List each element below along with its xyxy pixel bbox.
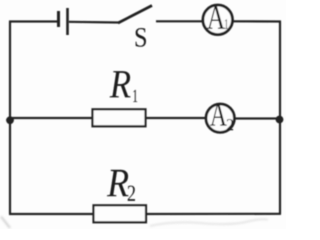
- wire battery to switch: [69, 21, 119, 24]
- label R2: [107, 170, 135, 201]
- switch S blade: [118, 6, 152, 24]
- wire top-left to battery: [9, 20, 57, 22]
- wire A2 to right vertical: [235, 117, 282, 119]
- node right junction: [276, 116, 284, 124]
- resistor R1: [93, 109, 146, 126]
- wire left vertical: [9, 22, 11, 215]
- wire R1 to A2: [146, 117, 207, 119]
- ammeter A1: [203, 5, 233, 35]
- scan smudge bottom area: [1, 217, 268, 229]
- switch label S: [136, 28, 146, 47]
- label R1: [110, 71, 138, 102]
- wire bottom-left to R2: [9, 213, 94, 215]
- ammeter A2: [206, 103, 234, 132]
- wire R2 to bottom-right corner: [146, 213, 281, 215]
- node left junction: [6, 116, 14, 124]
- battery cell: [59, 8, 68, 35]
- wire right vertical: [279, 22, 281, 214]
- wire switch to ammeter A1: [156, 20, 204, 22]
- wire A1 to top-right corner: [233, 20, 282, 22]
- resistor R2: [94, 205, 147, 222]
- wire middle-left to R1: [9, 117, 93, 119]
